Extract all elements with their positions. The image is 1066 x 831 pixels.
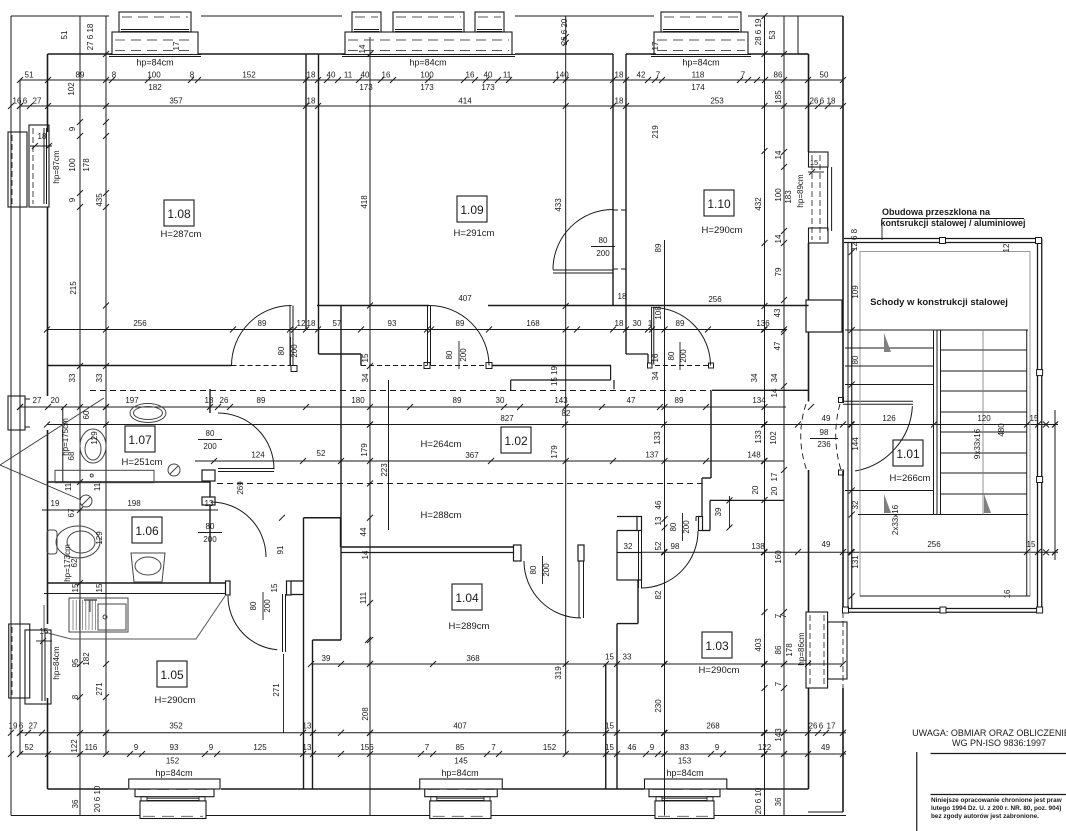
svg-text:109: 109: [851, 285, 860, 299]
svg-text:208: 208: [361, 707, 370, 721]
svg-text:253: 253: [710, 97, 724, 106]
wall 1.08|1.09 x306: [305, 54, 307, 330]
svg-text:182: 182: [148, 83, 162, 92]
svg-text:80: 80: [206, 429, 215, 438]
svg-text:418: 418: [360, 195, 369, 209]
svg-text:36: 36: [71, 799, 80, 808]
stairs left flight treads: [845, 347, 934, 349]
dim row y510: [42, 509, 218, 511]
svg-text:46: 46: [628, 743, 637, 752]
door opening 1.10 dashed: [613, 210, 626, 269]
svg-text:16: 16: [651, 353, 660, 362]
svg-text:18: 18: [618, 292, 627, 301]
svg-text:9x33x16: 9x33x16: [973, 428, 982, 459]
svg-text:80: 80: [249, 601, 258, 610]
svg-text:H=290cm: H=290cm: [702, 225, 743, 236]
svg-text:180: 180: [351, 396, 365, 405]
svg-text:144: 144: [851, 437, 860, 451]
svg-text:52: 52: [25, 743, 34, 752]
dim col x80: [79, 16, 81, 816]
svg-text:271: 271: [272, 683, 281, 697]
svg-text:11: 11: [344, 71, 353, 80]
svg-text:67: 67: [67, 508, 76, 517]
svg-text:352: 352: [169, 722, 183, 731]
door 1.10b arc: [653, 308, 711, 366]
svg-text:13: 13: [303, 722, 312, 731]
svg-text:20 6 10: 20 6 10: [93, 785, 102, 812]
door 1.08 arc: [232, 306, 292, 366]
svg-text:15: 15: [810, 158, 818, 167]
svg-text:40: 40: [327, 71, 336, 80]
svg-text:129: 129: [90, 431, 99, 445]
svg-text:lutego 1994 Dz. U. z 200 r. NR: lutego 1994 Dz. U. z 200 r. NR. 80, poz.…: [931, 805, 1061, 812]
svg-text:17: 17: [770, 472, 779, 481]
svg-text:367: 367: [465, 451, 479, 460]
svg-text:39: 39: [322, 654, 331, 663]
wall bottom inner y789: [48, 788, 129, 790]
svg-text:15: 15: [40, 627, 49, 636]
svg-text:20: 20: [751, 485, 760, 494]
svg-text:14: 14: [774, 234, 783, 243]
svg-text:827: 827: [500, 414, 514, 423]
window bottom-mid hp84: [420, 779, 503, 789]
room 1.09 label: [457, 196, 487, 222]
pier 1.10b: [626, 353, 648, 355]
door 1.08 leaf: [289, 306, 291, 366]
svg-text:30: 30: [633, 319, 642, 328]
jamb 1.05: [226, 581, 231, 595]
svg-text:12: 12: [297, 319, 306, 328]
dim col x764: [764, 16, 766, 816]
svg-text:hp=84cm: hp=84cm: [682, 58, 719, 68]
svg-text:68: 68: [67, 451, 76, 460]
svg-text:50: 50: [820, 71, 829, 80]
svg-text:80: 80: [445, 350, 454, 359]
svg-text:27 6 18: 27 6 18: [86, 23, 95, 50]
vertical column ticks: [77, 119, 83, 125]
table rule 1: [931, 753, 1066, 755]
wall top inner y54 seg4: [626, 53, 656, 55]
svg-text:100: 100: [420, 71, 434, 80]
dim ticks row 424: [44, 422, 50, 428]
enclosure left col: [847, 243, 849, 609]
svg-text:368: 368: [466, 654, 480, 663]
svg-text:7: 7: [774, 613, 783, 618]
door 1.06 arc: [211, 502, 266, 557]
enclosure right wall: [1037, 239, 1039, 613]
svg-text:26 6 20: 26 6 20: [560, 18, 569, 45]
svg-text:182: 182: [82, 652, 91, 666]
wall corridor x341: [340, 306, 342, 641]
svg-text:1.07: 1.07: [128, 433, 152, 447]
wall left inner x47: [47, 54, 49, 132]
kitchen counter outline: [44, 596, 225, 639]
kitchen drainer hatch: [72, 600, 74, 630]
wall 1.05 top y583: [48, 582, 226, 584]
svg-text:89: 89: [654, 243, 663, 252]
svg-text:86: 86: [774, 71, 783, 80]
svg-text:185: 185: [774, 90, 783, 104]
wall 1.03 top double: [617, 516, 637, 518]
svg-text:129: 129: [95, 531, 104, 545]
svg-text:H=266cm: H=266cm: [890, 473, 931, 484]
dim col x784: [783, 16, 785, 816]
svg-text:173: 173: [359, 83, 373, 92]
room 1.01 label: [893, 440, 923, 466]
svg-text:8: 8: [71, 694, 80, 699]
svg-text:136: 136: [756, 319, 770, 328]
svg-text:26: 26: [220, 396, 229, 405]
svg-text:108: 108: [654, 306, 663, 320]
svg-text:152: 152: [543, 743, 557, 752]
svg-text:hp=84cm: hp=84cm: [409, 58, 446, 68]
basin 1.07 top: [130, 404, 166, 423]
door 1.03 arc: [641, 531, 698, 588]
svg-text:133: 133: [754, 430, 763, 444]
svg-text:40: 40: [361, 71, 370, 80]
wall x664 lower: [664, 240, 666, 816]
door 1.09 leaf: [427, 306, 429, 366]
wall 1.05|1.04 x313: [312, 640, 314, 789]
svg-text:80: 80: [669, 522, 678, 531]
svg-text:32: 32: [851, 500, 860, 509]
svg-text:120: 120: [977, 414, 991, 423]
svg-text:15: 15: [71, 583, 80, 592]
svg-text:19: 19: [9, 722, 18, 731]
wall 1.05 pier top: [304, 517, 341, 519]
svg-text:200: 200: [542, 563, 551, 577]
door 1.10b leaf: [651, 307, 653, 365]
svg-text:236: 236: [817, 440, 831, 449]
wall corridor-1.03 vert x702: [701, 478, 703, 517]
door 1.10b opening dashed: [655, 365, 708, 367]
outer border bottom: [11, 815, 140, 817]
svg-text:14: 14: [361, 550, 370, 559]
svg-text:33: 33: [623, 653, 632, 662]
svg-text:79: 79: [774, 267, 783, 276]
svg-text:hp=84cm: hp=84cm: [52, 646, 61, 679]
svg-text:7: 7: [425, 743, 430, 752]
wall 1.05 top2 y593: [44, 593, 225, 595]
svg-text:143: 143: [554, 396, 568, 405]
dim ticks row 552: [661, 549, 667, 555]
wall 1.08|1.09 x318: [318, 54, 320, 354]
svg-text:53: 53: [768, 30, 777, 39]
svg-text:H=290cm: H=290cm: [155, 695, 196, 706]
svg-text:18: 18: [827, 97, 836, 106]
svg-text:1.06: 1.06: [135, 524, 159, 538]
door 1.07 leaf: [218, 468, 274, 470]
svg-text:145: 145: [454, 757, 468, 766]
svg-text:15: 15: [605, 743, 614, 752]
svg-text:268: 268: [706, 722, 720, 731]
svg-text:Schody w konstrukcji stalowej: Schody w konstrukcji stalowej: [870, 297, 1008, 308]
svg-text:95: 95: [71, 658, 80, 667]
svg-text:85: 85: [456, 743, 465, 752]
svg-text:102: 102: [769, 431, 778, 445]
svg-text:13: 13: [205, 499, 214, 508]
window top-left hp84: [119, 12, 191, 32]
wall 1.05|1.04 x303: [303, 518, 305, 789]
room 1.03 label: [702, 632, 732, 658]
svg-text:125: 125: [253, 743, 267, 752]
door 1.03 leaf: [638, 531, 640, 588]
svg-text:80: 80: [277, 346, 286, 355]
step x614: [613, 380, 615, 389]
toilet 1.06: [56, 526, 100, 558]
svg-text:133: 133: [653, 431, 662, 445]
door 1.09 arc: [429, 306, 489, 366]
svg-text:80: 80: [529, 565, 538, 574]
svg-text:bez zgody autorów jest zabroni: bez zgody autorów jest zabronione.: [931, 813, 1039, 820]
svg-text:hp=84cm: hp=84cm: [136, 58, 173, 68]
svg-text:18: 18: [615, 71, 624, 80]
svg-text:15: 15: [95, 583, 104, 592]
door 1.01 dashed swing: [801, 404, 807, 471]
svg-text:200: 200: [203, 442, 217, 451]
stairs landing edge: [858, 514, 1028, 516]
enclosure top wall: [844, 238, 1042, 240]
door 1.09 opening dashed: [361, 365, 427, 367]
wall bath right x210: [209, 389, 211, 413]
door 1.05 leaf: [282, 594, 284, 652]
door 1.10b hinge block: [648, 363, 653, 368]
svg-text:60: 60: [82, 410, 91, 419]
wall 1.02|1.04 y547: [341, 546, 514, 548]
dim ticks row C: [8, 103, 14, 109]
wall top inner y54 seg5: [748, 53, 798, 55]
jamb 1.06 top: [202, 497, 215, 505]
svg-text:200: 200: [459, 348, 468, 362]
svg-text:34: 34: [750, 373, 759, 382]
room 1.08 label: [164, 200, 194, 226]
dim ticks row 401: [17, 404, 23, 410]
enclosure bottom wall: [844, 608, 1042, 610]
window bottom-left hp84: [129, 779, 220, 789]
jamb 1.03 right: [699, 517, 703, 531]
wall top inner y54 seg2: [198, 53, 345, 55]
kitchen faucet: [89, 600, 91, 612]
svg-text:12 6 8: 12 6 8: [850, 228, 859, 251]
door 1.08 hinge block: [291, 366, 297, 372]
dim line row A y80: [20, 79, 843, 81]
wall right outer x843: [842, 16, 844, 402]
svg-text:9: 9: [715, 743, 720, 752]
svg-text:89: 89: [675, 396, 684, 405]
svg-text:42: 42: [637, 71, 646, 80]
svg-text:256: 256: [927, 540, 941, 549]
svg-text:433: 433: [554, 198, 563, 212]
svg-text:14: 14: [770, 388, 779, 397]
svg-text:51: 51: [60, 30, 69, 39]
svg-text:100: 100: [774, 188, 783, 202]
svg-text:178: 178: [785, 643, 794, 657]
svg-text:89: 89: [456, 319, 465, 328]
svg-text:18: 18: [307, 319, 316, 328]
svg-text:52: 52: [317, 449, 326, 458]
svg-text:89: 89: [258, 319, 267, 328]
svg-text:9: 9: [650, 743, 655, 752]
wall top inner y54 seg1: [48, 53, 113, 55]
svg-text:46: 46: [654, 500, 663, 509]
svg-text:14: 14: [358, 44, 367, 53]
svg-text:34: 34: [770, 373, 779, 382]
svg-text:11: 11: [93, 482, 102, 491]
svg-text:47: 47: [773, 341, 782, 350]
door 1.01 leaf: [843, 400, 913, 402]
svg-text:7: 7: [491, 743, 496, 752]
wall protrusion right: [806, 300, 842, 332]
svg-text:9: 9: [134, 743, 139, 752]
enclosure inner frame: [860, 252, 1030, 597]
svg-text:20: 20: [770, 486, 779, 495]
svg-text:6: 6: [19, 722, 24, 731]
svg-text:137: 137: [645, 451, 659, 460]
table vline: [916, 752, 918, 831]
bidet 1.06: [131, 553, 165, 582]
svg-text:39: 39: [714, 507, 723, 516]
svg-text:H=287cm: H=287cm: [161, 229, 202, 240]
jamb 1.04 left: [514, 545, 522, 561]
svg-text:hp=86cm: hp=86cm: [797, 632, 806, 665]
svg-text:152: 152: [242, 71, 256, 80]
svg-text:223: 223: [380, 463, 389, 477]
svg-text:kontsrukcji stalowej / alumini: kontsrukcji stalowej / aluminiowej: [880, 218, 1025, 228]
dim col x370: [369, 37, 371, 816]
dim ticks row D: [8, 730, 14, 736]
svg-text:269: 269: [236, 481, 245, 495]
outer border left: [10, 16, 12, 816]
svg-text:13: 13: [654, 516, 663, 525]
svg-text:219: 219: [651, 125, 660, 139]
svg-text:H=289cm: H=289cm: [449, 621, 490, 632]
svg-text:H=291cm: H=291cm: [454, 228, 495, 239]
svg-text:19: 19: [51, 499, 60, 508]
door 1.04 arc: [524, 561, 581, 618]
dashed beam y389: [90, 390, 711, 392]
dim col 271: [283, 654, 285, 733]
svg-text:15: 15: [361, 353, 370, 362]
svg-text:111: 111: [359, 591, 368, 604]
svg-text:480: 480: [997, 423, 1006, 437]
svg-text:49: 49: [822, 414, 831, 423]
window top-right hp84: [661, 12, 741, 32]
svg-text:16: 16: [466, 71, 475, 80]
door 1.08 opening dashed: [232, 365, 292, 367]
wall 1.04|1.03 x617: [616, 624, 618, 789]
room 1.05 label: [157, 661, 187, 687]
svg-text:13: 13: [303, 743, 312, 752]
enclosure mullion squares: [940, 238, 946, 244]
dim col x20: [19, 80, 21, 754]
svg-text:15: 15: [1027, 540, 1036, 549]
svg-text:89: 89: [453, 396, 462, 405]
svg-text:80: 80: [851, 355, 860, 364]
svg-text:16: 16: [13, 97, 22, 106]
svg-text:200: 200: [203, 535, 217, 544]
pier 32: [617, 553, 642, 581]
room 1.02 label: [501, 427, 531, 453]
room 1.07 label: [125, 426, 155, 452]
stairs stringer double: [933, 330, 935, 515]
room 1.10 label: [704, 190, 734, 216]
svg-text:13: 13: [205, 396, 214, 405]
stairs mid guide: [982, 330, 984, 515]
wall top step right: [797, 16, 799, 54]
dim col x565: [565, 16, 567, 754]
stairs direction triangle 3: [984, 494, 991, 513]
stairs direction triangle 2: [884, 494, 891, 513]
svg-text:9: 9: [68, 197, 77, 202]
svg-text:62: 62: [70, 558, 79, 567]
dim ticks row E: [8, 751, 14, 757]
svg-text:26: 26: [810, 97, 819, 106]
wall 1.04|1.03 x638: [637, 580, 639, 624]
dim row mid y424: [47, 424, 1058, 426]
svg-text:1.04: 1.04: [455, 591, 479, 605]
svg-text:122: 122: [758, 743, 772, 752]
svg-text:57: 57: [333, 319, 342, 328]
svg-text:hp=175cm: hp=175cm: [61, 418, 70, 456]
svg-text:89: 89: [257, 396, 266, 405]
svg-text:WG PN-ISO 9836:1997: WG PN-ISO 9836:1997: [952, 738, 1046, 748]
svg-text:198: 198: [127, 499, 141, 508]
svg-text:26: 26: [809, 722, 818, 731]
svg-text:179: 179: [360, 443, 369, 457]
svg-text:33: 33: [95, 373, 104, 382]
svg-text:hp=89cm: hp=89cm: [796, 174, 805, 207]
svg-text:160: 160: [774, 550, 783, 564]
window right hp89: [809, 152, 829, 167]
svg-text:28 6 19: 28 6 19: [754, 18, 763, 45]
dim ticks row A: [17, 77, 23, 83]
svg-text:407: 407: [458, 294, 472, 303]
svg-text:17: 17: [172, 41, 181, 50]
dim row mid y329: [47, 329, 786, 331]
svg-text:131: 131: [851, 555, 860, 569]
svg-text:27: 27: [33, 97, 42, 106]
svg-text:hp=87cm: hp=87cm: [52, 150, 61, 183]
svg-text:H=290cm: H=290cm: [699, 665, 740, 676]
svg-text:118: 118: [692, 71, 705, 80]
svg-text:148: 148: [747, 451, 761, 460]
svg-text:82: 82: [654, 590, 663, 599]
section mark lines: [0, 398, 104, 465]
svg-text:34: 34: [361, 373, 370, 382]
wall bottom right step: [808, 811, 843, 813]
dim row y552: [642, 551, 1059, 553]
svg-text:15: 15: [605, 722, 614, 731]
door 1.09 hinge block: [486, 363, 492, 369]
svg-text:17: 17: [651, 41, 660, 50]
room 1.06 label: [132, 517, 162, 543]
svg-text:407: 407: [453, 722, 467, 731]
svg-text:hp=84cm: hp=84cm: [155, 768, 192, 778]
stairs inner right vert: [1026, 330, 1028, 596]
dim ticks row 461: [211, 458, 217, 464]
svg-text:18: 18: [38, 132, 47, 141]
window left hp87: [8, 132, 27, 207]
svg-text:124: 124: [251, 451, 265, 460]
dim row bottom y754: [20, 753, 846, 755]
svg-text:126: 126: [882, 414, 896, 423]
svg-text:173: 173: [420, 83, 434, 92]
svg-text:52: 52: [654, 541, 663, 550]
svg-text:1.02: 1.02: [504, 434, 528, 448]
svg-text:134: 134: [752, 396, 766, 405]
window left small: [8, 396, 25, 430]
svg-text:230: 230: [654, 699, 663, 713]
